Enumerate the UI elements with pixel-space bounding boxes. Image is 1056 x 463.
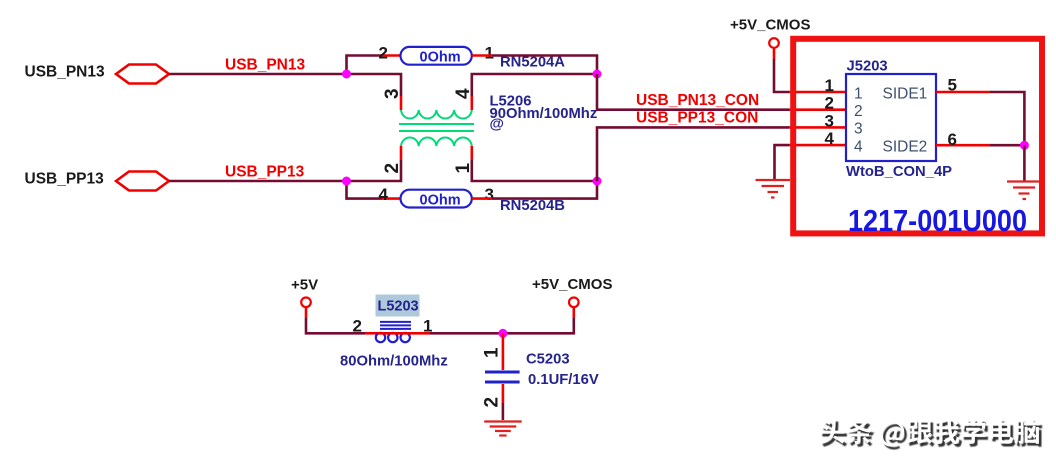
junction dot top-left — [342, 70, 351, 79]
bead L5203 highlight — [376, 295, 420, 317]
svg-text:0.1UF/16V: 0.1UF/16V — [528, 372, 599, 388]
power +5V_CMOS bottom port circle — [569, 298, 579, 308]
svg-text:0Ohm: 0Ohm — [420, 192, 461, 208]
bead L5203 pin1 stub — [412, 332, 430, 335]
junction dot bottom-right — [593, 177, 602, 186]
svg-text:4: 4 — [825, 129, 835, 148]
svg-text:RN5204B: RN5204B — [500, 198, 565, 214]
svg-text:6: 6 — [948, 130, 957, 149]
wire USB_PP13 — [169, 180, 347, 183]
svg-text:USB_PP13: USB_PP13 — [225, 164, 305, 181]
wire resistor row right to junction — [492, 56, 597, 75]
wire pin4 to ground — [775, 145, 790, 179]
svg-text:5: 5 — [948, 76, 957, 95]
resistor RN5204A body — [401, 47, 472, 65]
svg-text:SIDE1: SIDE1 — [883, 85, 928, 102]
junction dot bottom-left — [342, 177, 351, 186]
svg-text:C5203: C5203 — [526, 351, 570, 367]
svg-text:USB_PN13_CON: USB_PN13_CON — [636, 92, 759, 109]
capacitor C5203 plates — [485, 372, 520, 382]
power +5V_CMOS bottom pin stub — [572, 307, 575, 318]
wire USB_PN13 — [169, 73, 347, 76]
capacitor C5203 pin1 stub — [502, 333, 505, 370]
choke L5206 pin3 stub — [400, 96, 403, 110]
wire USB_PN13_CON — [597, 74, 789, 110]
svg-text:90Ohm/100Mhz: 90Ohm/100Mhz — [490, 106, 598, 122]
connector pin5 wire — [936, 91, 990, 94]
bead L5203 symbol circles — [376, 333, 410, 342]
wire pin5 down to junction — [990, 92, 1024, 145]
wire bead to junction — [430, 332, 503, 335]
connector J5203 body — [846, 74, 936, 161]
bead L5203 symbol lines — [380, 322, 411, 329]
capacitor C5203 pin2 stub — [502, 384, 505, 403]
wire cap to ground — [502, 403, 505, 420]
resistor RN5204B body — [401, 190, 472, 208]
connector pin2 wire — [789, 108, 846, 111]
svg-text:4: 4 — [379, 185, 389, 204]
connector pin1 wire — [789, 91, 846, 94]
svg-text:+5V_CMOS: +5V_CMOS — [730, 17, 810, 34]
ground symbol bottom — [484, 422, 522, 436]
svg-text:USB_PN13: USB_PN13 — [25, 64, 105, 81]
svg-text:3: 3 — [825, 111, 834, 130]
wire junction down to ground — [1023, 145, 1026, 180]
wire +5V down and right — [306, 318, 365, 333]
svg-text:1: 1 — [825, 76, 834, 95]
bead L5203 wire across — [378, 332, 412, 335]
wire choke pin2 to junction3 — [347, 160, 402, 181]
svg-text:@: @ — [490, 117, 504, 133]
svg-text:1: 1 — [485, 44, 494, 63]
svg-text:2: 2 — [482, 397, 503, 408]
svg-text:3: 3 — [382, 88, 403, 99]
choke L5206 pin2 stub — [400, 146, 403, 160]
wire bottom resistor row right to junction — [492, 181, 597, 199]
junction dot bottom circuit — [498, 329, 507, 338]
watermark toutiao "头条 @跟我学电脑" — [820, 418, 1043, 449]
svg-text:2: 2 — [353, 317, 362, 336]
wire RN5204A pin1 stub — [472, 54, 492, 57]
highlight red box — [793, 39, 1042, 234]
power +5V port circle — [301, 298, 311, 308]
svg-text:3: 3 — [854, 121, 863, 138]
connector pin3 wire — [789, 126, 846, 129]
port USB_PN13 hexagon — [116, 65, 169, 84]
svg-text:80Ohm/100Mhz: 80Ohm/100Mhz — [340, 354, 448, 370]
svg-text:1: 1 — [482, 347, 503, 358]
svg-text:1217-001U000: 1217-001U000 — [848, 204, 1027, 238]
wire RN5204A pin2 stub — [382, 54, 401, 57]
svg-text:J5203: J5203 — [847, 58, 888, 74]
wire junction to +5V_CMOS — [503, 318, 574, 333]
svg-text:USB_PP13_CON: USB_PP13_CON — [636, 109, 758, 126]
power +5V pin stub — [305, 307, 308, 318]
svg-text:USB_PP13: USB_PP13 — [25, 170, 105, 187]
svg-text:+5V_CMOS: +5V_CMOS — [532, 276, 612, 293]
connector pin6 wire — [936, 144, 990, 147]
wire RN5204B pin4 stub — [382, 197, 401, 200]
svg-text:2: 2 — [379, 44, 388, 63]
power +5V_CMOS pin stub — [773, 48, 776, 60]
svg-text:0Ohm: 0Ohm — [420, 49, 461, 65]
choke L5206 core lines — [399, 123, 474, 125]
power +5V_CMOS top port circle — [769, 38, 779, 48]
wire choke pin4 to junction2 — [472, 74, 597, 96]
choke L5206 pin4 stub — [470, 96, 473, 110]
wire bottom-left branch down to resistor row — [347, 181, 383, 199]
svg-text:L5203: L5203 — [378, 298, 419, 314]
connector pin4 wire — [789, 144, 846, 147]
ground symbol left — [756, 180, 791, 198]
svg-text:USB_PN13: USB_PN13 — [225, 57, 305, 74]
svg-text:SIDE2: SIDE2 — [883, 138, 928, 155]
port USB_PP13 hexagon — [116, 172, 169, 191]
wire pin6 to junction — [990, 144, 1024, 147]
svg-text:+5V: +5V — [291, 277, 318, 294]
ground symbol right — [1007, 182, 1041, 200]
choke L5206 top winding — [401, 110, 472, 118]
svg-text:2: 2 — [825, 94, 834, 113]
svg-text:4: 4 — [854, 138, 863, 155]
wire choke pin1 to junction4 — [472, 160, 597, 181]
junction dot top-right — [593, 70, 602, 79]
wire +5V_CMOS to pin1 — [774, 59, 789, 92]
svg-text:3: 3 — [485, 185, 494, 204]
wire junction1 to choke pin3 — [347, 74, 402, 96]
wire top-left branch up to resistor row — [347, 56, 383, 75]
choke L5206 pin1 stub — [470, 146, 473, 160]
svg-text:WtoB_CON_4P: WtoB_CON_4P — [846, 164, 952, 180]
choke L5206 bottom winding — [401, 138, 472, 146]
bead L5203 pin2 stub — [365, 332, 378, 335]
wire USB_PP13_CON — [597, 127, 789, 181]
svg-text:1: 1 — [854, 85, 863, 102]
svg-text:2: 2 — [854, 103, 863, 120]
wire RN5204B pin3 stub — [472, 197, 492, 200]
junction dot right — [1020, 141, 1029, 150]
